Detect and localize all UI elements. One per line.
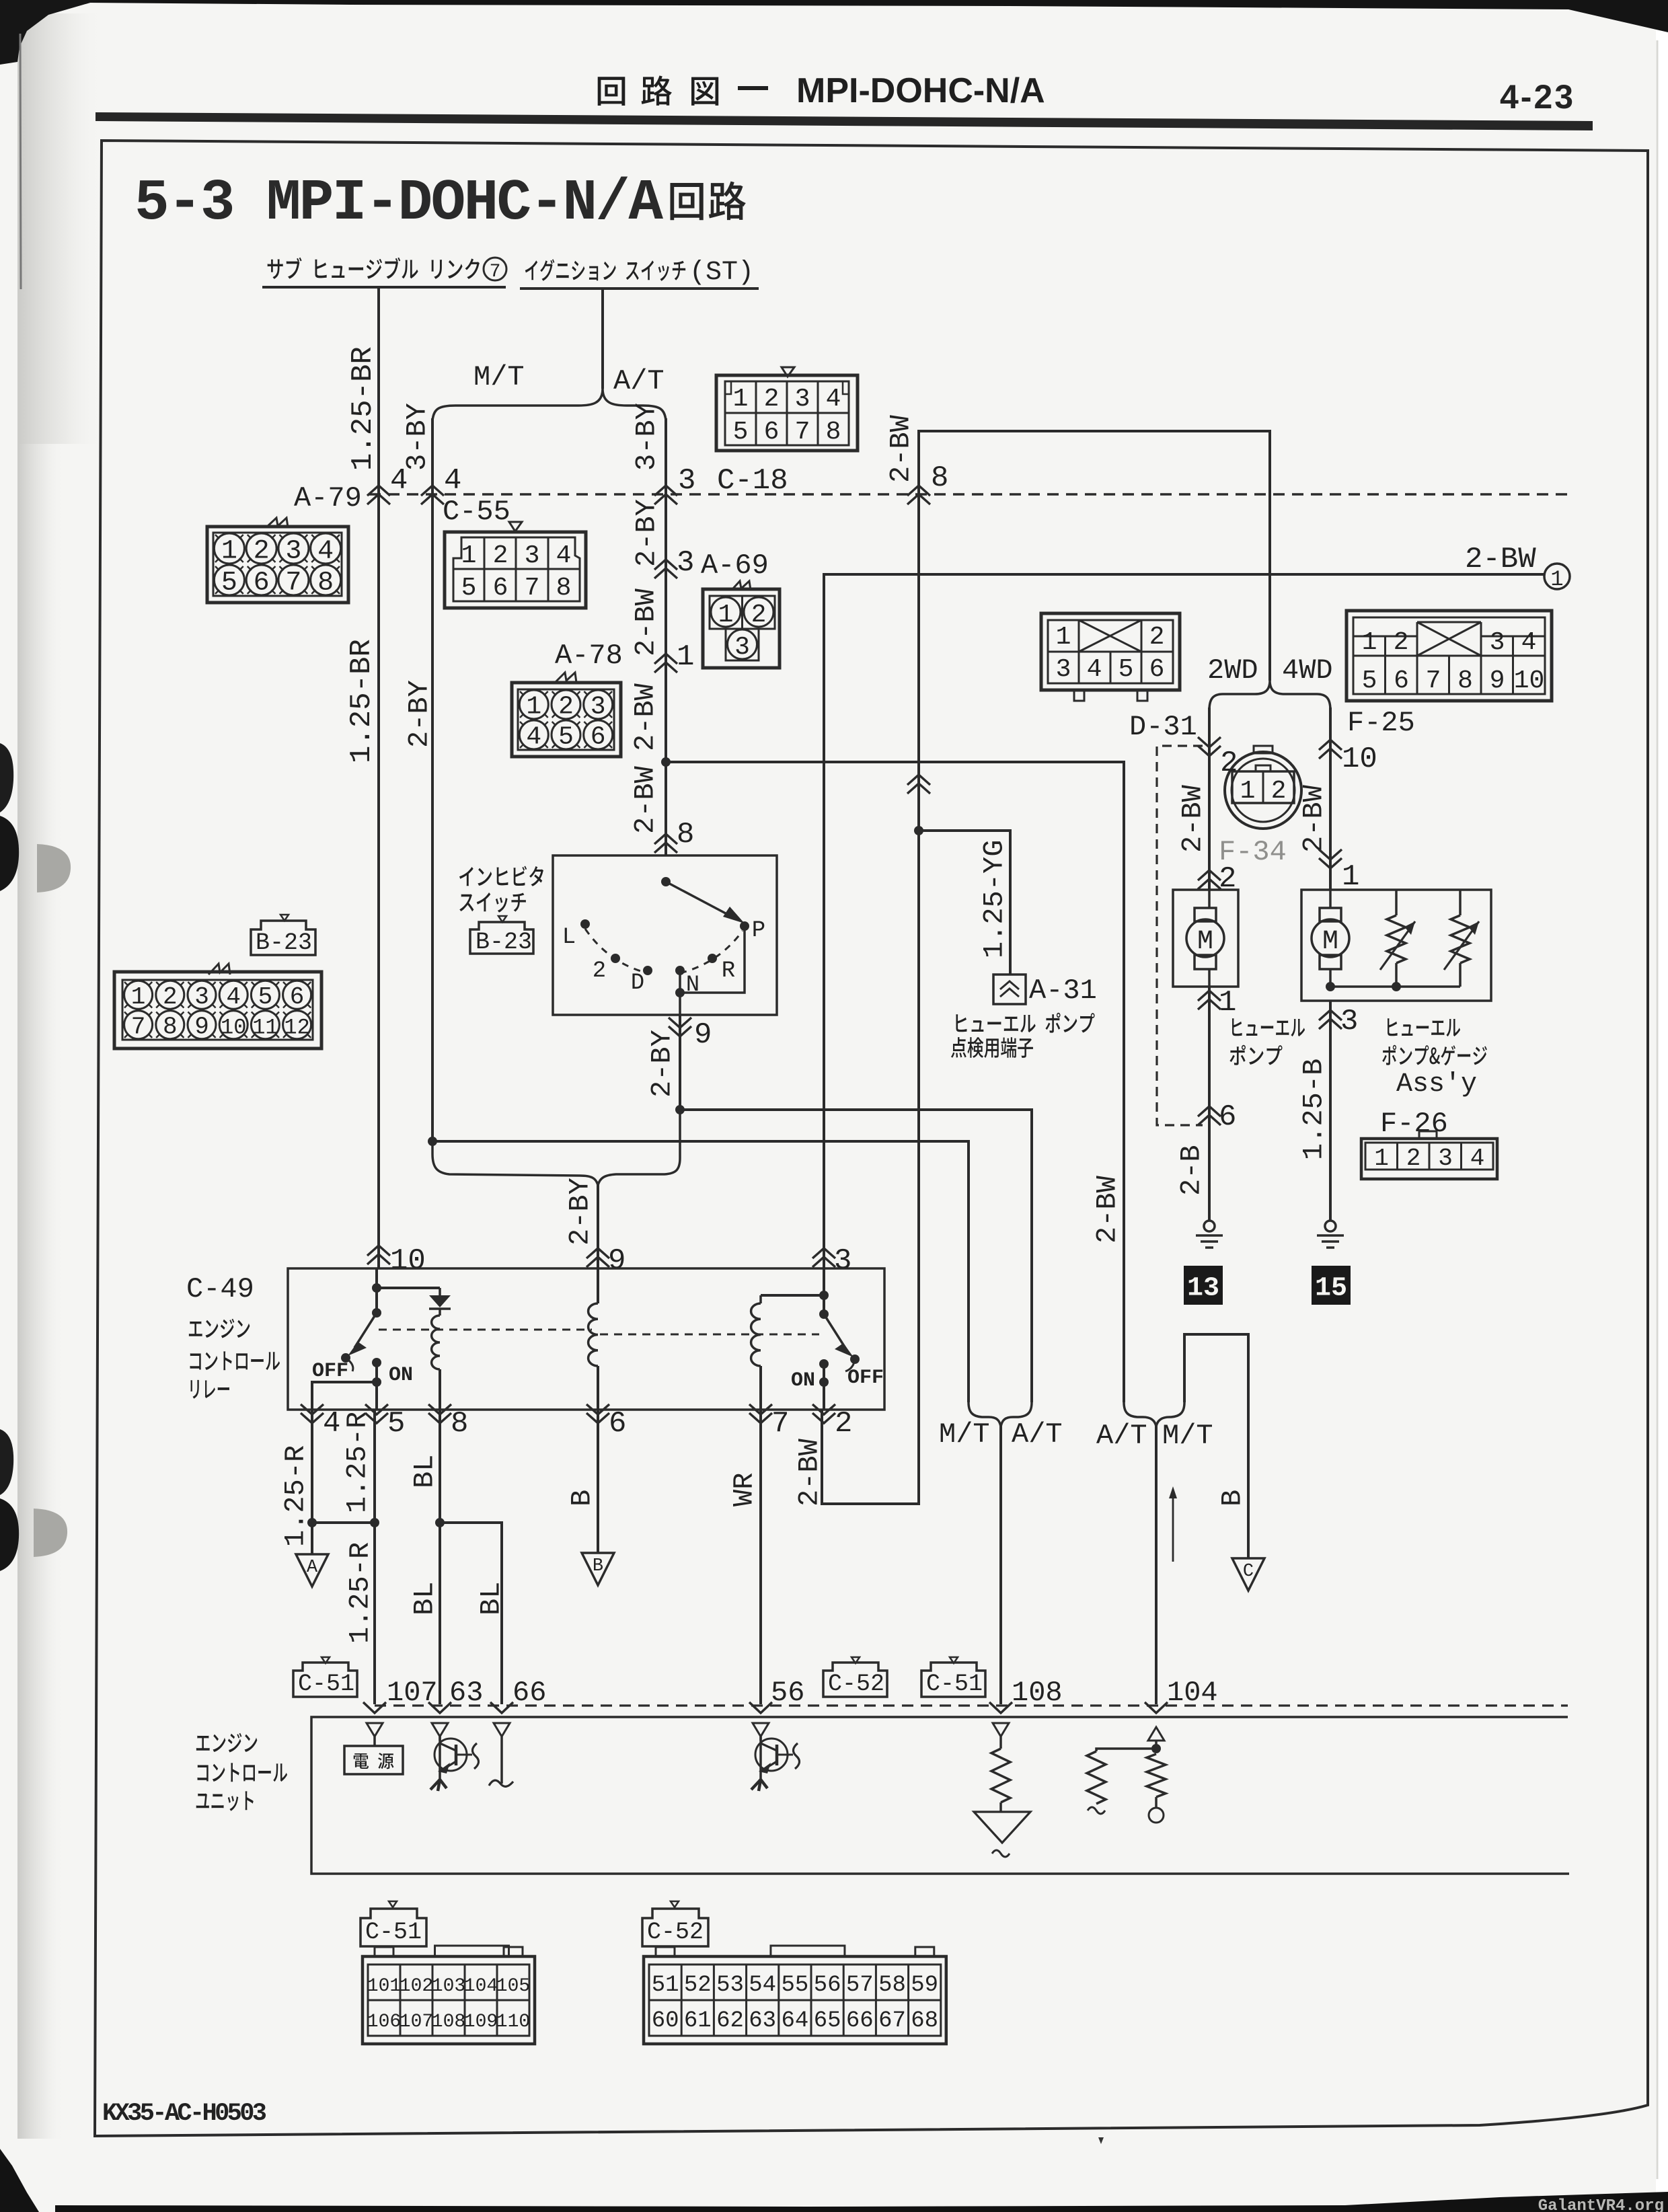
svg-text:4WD: 4WD <box>1282 654 1333 687</box>
connector label box B-23 left <box>280 915 289 921</box>
svg-text:53: 53 <box>716 1973 744 1998</box>
svg-text:6: 6 <box>254 568 270 599</box>
wire 3-BY M/T branch down to junction <box>431 418 434 1141</box>
svg-text:4: 4 <box>1470 1145 1485 1172</box>
ECU pin 56 internal triangle <box>753 1723 769 1737</box>
connector label box C-51 bottom <box>389 1901 397 1907</box>
svg-text:4-23: 4-23 <box>1500 78 1575 116</box>
svg-text:12: 12 <box>284 1016 309 1040</box>
relay pin 6 exit chevron <box>586 1413 609 1423</box>
svg-text:1.25-R: 1.25-R <box>341 1412 373 1513</box>
wire 1.25-R from relay pin 4 <box>311 1410 313 1554</box>
svg-text:A: A <box>307 1558 318 1578</box>
svg-text:2-BW: 2-BW <box>884 414 917 483</box>
svg-text:1.25-BR: 1.25-BR <box>346 346 380 471</box>
svg-text:1: 1 <box>131 983 146 1011</box>
connector F-34 round housing <box>1225 752 1301 829</box>
svg-text:4: 4 <box>556 541 572 570</box>
svg-text:C-51: C-51 <box>926 1671 983 1698</box>
connector label box C-51 at ECU left <box>321 1657 330 1663</box>
relay left switch ON contact and output <box>372 1358 381 1367</box>
svg-text:1: 1 <box>221 537 237 567</box>
relay box C-49 <box>288 1268 884 1410</box>
dashed 2WD-only bracket <box>1157 746 1203 1125</box>
svg-text:1: 1 <box>461 541 477 570</box>
chevron 8 at inhibitor switch entry <box>654 834 677 844</box>
header dash <box>738 86 768 90</box>
scan artifact left binder blob 2 <box>0 1429 13 1495</box>
svg-text:10: 10 <box>1514 666 1545 695</box>
svg-text:OFF: OFF <box>312 1360 348 1383</box>
connector A-31 fuel pump check terminal box <box>993 975 1026 1004</box>
svg-text:A-79: A-79 <box>294 482 362 514</box>
svg-text:C-52: C-52 <box>828 1671 884 1698</box>
relay coil 3 feed from pin 3 <box>819 1291 829 1300</box>
connector D-31 keyway X cell <box>1079 620 1141 652</box>
svg-text:2-BY: 2-BY <box>403 680 435 748</box>
wire BL from relay pin 8 to ECU pin 63 <box>439 1410 441 1704</box>
svg-text:2-B: 2-B <box>1175 1145 1207 1196</box>
svg-text:7: 7 <box>131 1014 146 1041</box>
scan artifact left gray half-disc 2 <box>34 1509 67 1557</box>
wire 2-BW page link from relay pin3 node to circled 1 <box>824 574 1545 1268</box>
chevron 3 at relay pin 3 <box>812 1248 835 1258</box>
svg-text:1: 1 <box>1374 1145 1389 1172</box>
svg-text:2-BW: 2-BW <box>629 683 661 751</box>
ECU transistor 63 emitter ground <box>430 1780 440 1790</box>
ground reference box 15 <box>1312 1266 1351 1305</box>
relay right switch OFF contact <box>850 1355 860 1364</box>
scan artifact bottom black bar <box>55 2192 1668 2212</box>
connector A-69 pin circles <box>711 597 741 627</box>
relay coil 1 (main relay coil) <box>439 1309 441 1315</box>
label fuel pump 2WD line1 <box>1232 1018 1305 1036</box>
svg-text:65: 65 <box>814 2008 841 2034</box>
svg-text:5: 5 <box>387 1407 405 1441</box>
inhibitor switch dashed position arc <box>585 929 743 973</box>
svg-text:7: 7 <box>1426 666 1441 695</box>
svg-text:M: M <box>1197 927 1213 957</box>
svg-text:GalantVR4.org: GalantVR4.org <box>1538 2197 1664 2212</box>
svg-text:109: 109 <box>464 2012 498 2032</box>
relay pin 5 exit chevron <box>365 1413 388 1423</box>
fuel pump and gauge assy box <box>1301 890 1491 1001</box>
svg-text:2-BY: 2-BY <box>646 1030 678 1098</box>
svg-text:C-18: C-18 <box>717 464 788 498</box>
label engine control relay line2 (kontorooru) <box>190 1351 280 1370</box>
svg-text:5: 5 <box>221 568 237 599</box>
wire WR from relay pin 7 to ECU pin 56 <box>759 1410 762 1704</box>
svg-text:1: 1 <box>1219 986 1236 1020</box>
inhibitor switch input contact <box>661 877 671 886</box>
connector F-25 housing <box>1347 611 1552 701</box>
label inhibitor switch line1 (inhibita) <box>459 866 543 886</box>
relay left switch: pin10 node dots <box>372 1283 381 1293</box>
connector D-31 mounting tabs <box>1074 690 1084 701</box>
svg-text:6: 6 <box>1394 666 1409 695</box>
wire 1.25-YG branch to check connector A-31 <box>919 831 1010 975</box>
ECU pin 63 entry <box>428 1702 451 1713</box>
svg-text:6: 6 <box>493 574 508 603</box>
svg-text:1.25-B: 1.25-B <box>1297 1059 1330 1160</box>
chevron 2 on 2WD branch at pump connector <box>1198 870 1221 880</box>
svg-text:13: 13 <box>1187 1273 1219 1303</box>
svg-text:A-31: A-31 <box>1029 975 1097 1007</box>
svg-text:ON: ON <box>791 1369 815 1392</box>
svg-text:3-BY: 3-BY <box>630 403 662 471</box>
svg-text:3: 3 <box>834 1244 851 1278</box>
svg-text:7: 7 <box>490 262 501 282</box>
wire 2-BY A/T to brace toward ECU pin 56 <box>680 1110 1032 1402</box>
circled terminal 1 page reference <box>1544 564 1570 589</box>
relay mechanical link dashed left <box>379 1329 592 1331</box>
fuel gauge sender variable resistor 1 <box>1395 890 1398 915</box>
wire 2-BY M/T to brace toward ECU pin 56 <box>432 1141 969 1402</box>
brace split 2WD 4WD <box>1209 681 1330 710</box>
junction dot inhibitor output split <box>675 1105 685 1114</box>
svg-text:2-BW: 2-BW <box>630 588 662 656</box>
svg-text:2-BW: 2-BW <box>793 1438 825 1507</box>
svg-text:2: 2 <box>1149 623 1165 652</box>
circled 7 fusible link number <box>484 258 506 280</box>
connector A-78 pin circles <box>519 690 548 719</box>
svg-text:8: 8 <box>677 818 694 851</box>
svg-text:4: 4 <box>526 723 541 752</box>
ground triangle C <box>1232 1558 1264 1591</box>
svg-text:C-51: C-51 <box>298 1671 354 1698</box>
ECU open terminal circle at pin 104 <box>1149 1808 1164 1823</box>
connector B-23 housing <box>208 964 230 975</box>
svg-text:1: 1 <box>526 693 541 722</box>
svg-text:110: 110 <box>496 2012 530 2032</box>
svg-text:2: 2 <box>764 385 780 414</box>
svg-text:4: 4 <box>1521 628 1537 657</box>
relay link ON node to pin 4 <box>312 1382 377 1410</box>
svg-text:5: 5 <box>558 723 574 752</box>
ECU transistor at pin 63 <box>439 1737 441 1780</box>
relay mechanical link dashed right <box>600 1334 819 1336</box>
wire 2-BW fuel pump feed: relay pin2 up and across top <box>822 431 1270 1504</box>
svg-text:2-BW: 2-BW <box>1176 784 1209 853</box>
svg-text:A-78: A-78 <box>555 640 623 672</box>
ECU resistor below pin 104 <box>1147 1754 1166 1797</box>
svg-text:1: 1 <box>733 385 749 414</box>
svg-text:8: 8 <box>826 418 841 447</box>
svg-text:MPI-DOHC-N/A: MPI-DOHC-N/A <box>796 71 1045 110</box>
ECU pin 56 entry <box>749 1702 772 1713</box>
svg-text:M: M <box>1322 927 1338 957</box>
junction dot M/T wire split <box>428 1137 437 1146</box>
ECU pin 66 internal triangle and stub <box>494 1723 510 1737</box>
ECU pin 104 junction dot <box>1151 1744 1161 1753</box>
fuel pump 2WD box <box>1173 890 1238 987</box>
svg-text:2: 2 <box>558 693 574 722</box>
svg-text:52: 52 <box>684 1973 712 1998</box>
svg-text:4: 4 <box>444 464 461 498</box>
relay left switch arm with arrowhead to OFF <box>354 1313 377 1348</box>
svg-text:A-69: A-69 <box>701 549 769 582</box>
connector F-25 keyway X cell <box>1417 622 1481 656</box>
fuel pump 2WD motor <box>1208 890 1211 908</box>
chevron 6 on 2WD ground wire at dashed bracket <box>1198 1106 1221 1116</box>
chevron 1 on 4WD branch at pump connector <box>1319 858 1342 868</box>
svg-text:2-BW: 2-BW <box>1091 1175 1123 1244</box>
svg-text:8: 8 <box>931 461 948 495</box>
svg-text:55: 55 <box>781 1973 808 1998</box>
svg-text:R: R <box>722 958 735 984</box>
label engine control unit line2 (kontorooru) <box>198 1763 288 1782</box>
scan artifact top black band <box>81 0 1668 32</box>
connector label box C-51 at ECU right <box>950 1657 958 1663</box>
svg-text:106: 106 <box>367 2012 401 2032</box>
svg-text:8: 8 <box>163 1014 178 1041</box>
svg-text:61: 61 <box>684 2008 712 2034</box>
fusible link triangle A <box>296 1554 328 1587</box>
connector D-31 housing <box>1041 613 1180 690</box>
inhibitor switch N output wire <box>679 970 681 1015</box>
svg-text:BL: BL <box>408 1582 441 1615</box>
svg-text:C-55: C-55 <box>443 496 510 528</box>
wire 2-BY from inhibitor N down to junction <box>679 1015 681 1110</box>
connector A-69 housing <box>732 581 751 590</box>
connector C-52 bottom housing <box>644 1956 946 2044</box>
svg-text:1: 1 <box>1550 567 1563 592</box>
svg-text:2-BW: 2-BW <box>1465 543 1536 576</box>
svg-text:(ST): (ST) <box>689 258 754 288</box>
svg-text:7: 7 <box>771 1407 789 1441</box>
svg-text:2-BW: 2-BW <box>629 765 661 834</box>
fuel pump 4WD motor <box>1329 890 1332 908</box>
svg-text:10: 10 <box>1342 742 1377 776</box>
svg-text:9: 9 <box>694 1018 712 1052</box>
svg-text:6: 6 <box>764 418 780 447</box>
svg-text:A/T: A/T <box>1012 1418 1063 1451</box>
svg-text:6: 6 <box>591 723 606 752</box>
label fuel pump 2WD line2 <box>1229 1045 1282 1065</box>
brace merge A/T M/T to ECU pin 104 <box>1124 1402 1184 1426</box>
svg-text:1: 1 <box>718 601 734 630</box>
svg-text:3: 3 <box>285 537 301 567</box>
svg-text:2WD: 2WD <box>1207 654 1258 687</box>
svg-text:7: 7 <box>795 418 810 447</box>
svg-text:6: 6 <box>1149 655 1165 684</box>
svg-text:60: 60 <box>652 2008 679 2034</box>
label fuel pump check terminal line2 (tenkenyou tanshi) <box>951 1037 1033 1058</box>
svg-text:1: 1 <box>1056 623 1071 652</box>
svg-text:2: 2 <box>593 958 606 984</box>
svg-text:3: 3 <box>1056 655 1071 684</box>
relay right switch ON contact and output <box>819 1359 829 1369</box>
scan artifact left binder blob 1 <box>0 743 13 812</box>
svg-text:56: 56 <box>771 1677 804 1709</box>
svg-text:63: 63 <box>749 2008 776 2034</box>
ECU pin 108 internal triangle <box>993 1723 1009 1737</box>
svg-text:2: 2 <box>1220 747 1238 780</box>
svg-text:108: 108 <box>1012 1677 1063 1709</box>
svg-text:105: 105 <box>496 1976 530 1997</box>
relay pin 2 exit chevron <box>812 1413 835 1423</box>
svg-text:66: 66 <box>513 1677 546 1709</box>
svg-text:3: 3 <box>677 546 694 580</box>
chevron on 2-BW riser below A-69 junction level <box>907 775 930 785</box>
svg-text:3: 3 <box>525 541 540 570</box>
connector C-51 bottom housing <box>363 1956 535 2044</box>
ECU pin 104 internal triangle (up) <box>1148 1727 1164 1741</box>
svg-text:11: 11 <box>252 1016 278 1040</box>
svg-text:KX35-AC-H0503: KX35-AC-H0503 <box>102 2100 267 2128</box>
svg-text:3: 3 <box>678 464 695 498</box>
svg-text:7: 7 <box>525 574 540 603</box>
svg-text:2-BW: 2-BW <box>1297 784 1330 853</box>
relay right switch: pivot and arm to OFF <box>823 1268 825 1314</box>
label sub fusible link (sabu fusible link) <box>268 258 480 279</box>
svg-text:58: 58 <box>878 1973 906 1998</box>
header title kanji 回路図 <box>598 77 625 106</box>
wire BL branch to ECU pin 66 <box>440 1523 502 1704</box>
ECU transistor at pin 56 <box>759 1737 762 1780</box>
svg-text:9: 9 <box>1490 666 1505 695</box>
assy internal bus and junction dots <box>1330 985 1460 988</box>
relay left switch OFF contact <box>341 1353 350 1363</box>
connector label box C-52 at ECU middle <box>851 1657 860 1663</box>
label engine control relay line1 (enjin) <box>189 1319 250 1338</box>
connector C-18 housing <box>782 367 794 377</box>
svg-text:57: 57 <box>846 1973 874 1998</box>
svg-text:1.25-R: 1.25-R <box>279 1445 311 1547</box>
svg-text:OFF: OFF <box>847 1367 884 1389</box>
svg-text:C-49: C-49 <box>186 1273 254 1305</box>
junction dot pin4 to pin5 tie <box>307 1518 317 1527</box>
brace merge M/T A/T to ECU pin 108 <box>969 1402 1032 1426</box>
svg-text:59: 59 <box>911 1973 938 1998</box>
svg-text:7: 7 <box>285 568 301 599</box>
svg-text:B-23: B-23 <box>256 929 312 956</box>
svg-text:F-26: F-26 <box>1380 1108 1448 1140</box>
svg-text:5: 5 <box>1119 655 1134 684</box>
ECU box <box>311 1717 1569 1874</box>
svg-text:8: 8 <box>556 574 572 603</box>
svg-text:10: 10 <box>221 1016 246 1040</box>
wire 2-B from 2WD pump to ground 13 <box>1208 987 1211 1221</box>
ECU pin 66 entry <box>490 1702 513 1713</box>
svg-text:WR: WR <box>728 1473 760 1507</box>
svg-text:2: 2 <box>493 541 508 570</box>
inhibitor switch wiper arm to P <box>666 882 734 918</box>
svg-text:ON: ON <box>389 1364 413 1387</box>
section title kanji 回路 <box>671 182 746 221</box>
inhibitor switch contact dots L 2 D N R P <box>580 919 590 929</box>
ground triangle B <box>582 1553 614 1585</box>
svg-text:6: 6 <box>1219 1100 1236 1134</box>
svg-text:107: 107 <box>400 2012 433 2032</box>
svg-text:F-25: F-25 <box>1347 707 1415 739</box>
ECU comparator triangle at pin 108 <box>974 1812 1030 1843</box>
connector A-78 housing <box>555 673 576 683</box>
ground symbol 13 <box>1204 1221 1215 1231</box>
svg-text:5: 5 <box>258 983 273 1011</box>
svg-text:5: 5 <box>461 574 477 603</box>
svg-text:104: 104 <box>464 1976 498 1997</box>
svg-text:68: 68 <box>911 2008 938 2034</box>
svg-text:2: 2 <box>751 601 767 630</box>
svg-text:L: L <box>562 925 576 950</box>
label inhibitor switch line2 (suicchi) <box>459 892 526 913</box>
svg-text:9: 9 <box>194 1014 209 1041</box>
svg-text:6: 6 <box>290 983 305 1011</box>
svg-text:A/T: A/T <box>1096 1420 1147 1452</box>
svg-text:M/T: M/T <box>1162 1420 1213 1452</box>
svg-text:3: 3 <box>1340 1005 1358 1038</box>
svg-text:B: B <box>566 1490 598 1507</box>
wire ignition switch ST down to split <box>601 289 604 389</box>
wire to ECU pin 104 <box>1155 1424 1158 1704</box>
svg-text:8: 8 <box>317 568 334 599</box>
ECU pin 107 internal triangle <box>367 1723 383 1737</box>
svg-text:63: 63 <box>449 1677 483 1709</box>
chevron 1 on A/T wire below connector A-69 <box>654 654 677 664</box>
chevron 3 below assy <box>1319 1010 1342 1020</box>
chevron 10 at relay pin 10 <box>367 1246 390 1256</box>
svg-text:103: 103 <box>432 1976 465 1997</box>
svg-text:5: 5 <box>733 418 749 447</box>
underline ignition switch <box>520 287 759 290</box>
svg-text:C-51: C-51 <box>365 1919 422 1946</box>
svg-text:2: 2 <box>1394 628 1409 657</box>
merge brace into relay coil pin 9 <box>432 1110 680 1185</box>
svg-text:51: 51 <box>652 1973 679 1998</box>
svg-text:66: 66 <box>846 2008 874 2034</box>
label pump gauge assy line1 <box>1388 1018 1460 1036</box>
svg-text:D: D <box>631 970 644 996</box>
svg-text:67: 67 <box>878 2008 906 2034</box>
ECU pin 63 internal triangle <box>432 1723 448 1737</box>
svg-text:2: 2 <box>163 983 178 1011</box>
scan artifact top-left black wedge <box>0 0 100 65</box>
chevron 4 on M/T branch at dashed boundary <box>421 486 444 496</box>
ECU power supply box (dengen) <box>344 1746 403 1774</box>
svg-text:4: 4 <box>323 1407 340 1441</box>
svg-text:3: 3 <box>1438 1145 1453 1172</box>
wire 1.25-BR from sub fusible link down to relay pin 10 <box>377 287 380 1268</box>
wire 3-BY A/T branch down to inhibitor switch <box>665 418 667 855</box>
svg-text:2-BY: 2-BY <box>564 1178 596 1246</box>
svg-text:P: P <box>752 918 765 944</box>
ground reference box 13 <box>1184 1266 1223 1305</box>
scan speck near bottom <box>1098 2137 1104 2144</box>
svg-text:1: 1 <box>677 640 694 674</box>
svg-text:1.25-R: 1.25-R <box>344 1542 376 1644</box>
svg-text:3: 3 <box>591 693 606 722</box>
relay coil 2 (fuel pump relay coil) <box>597 1268 599 1303</box>
connector B-23 pin circles <box>124 981 153 1009</box>
svg-text:4: 4 <box>1087 655 1102 684</box>
svg-text:101: 101 <box>367 1976 401 1997</box>
chevron 9 at relay pin 9 <box>586 1248 609 1258</box>
dashed harness boundary line across page <box>369 493 1574 496</box>
ECU resistor at pin 108 <box>991 1749 1010 1802</box>
svg-text:8: 8 <box>1457 666 1473 695</box>
svg-text:56: 56 <box>814 1973 841 1998</box>
relay pin 4 exit chevron <box>301 1413 324 1423</box>
wire 4WD branch down to pump and gauge assy <box>1329 708 1332 890</box>
svg-text:B-23: B-23 <box>476 929 532 956</box>
svg-text:1.25-YG: 1.25-YG <box>978 840 1010 958</box>
scan artifact bottom-left black wedge <box>0 2149 39 2212</box>
svg-text:54: 54 <box>749 1973 776 1998</box>
connector C-55 housing <box>445 532 586 608</box>
wire B from relay pin 6 to ground triangle B <box>597 1410 599 1553</box>
svg-text:B: B <box>1216 1490 1248 1507</box>
